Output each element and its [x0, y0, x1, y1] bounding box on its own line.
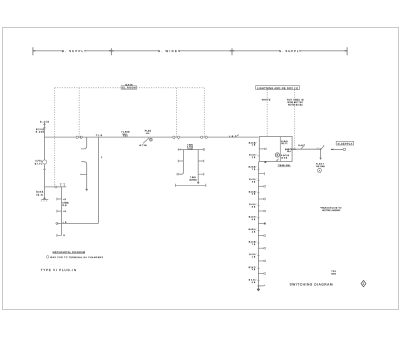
svg-text:NOTE B4 B2: NOTE B4 B2: [288, 103, 303, 106]
contact TR right upper: [198, 160, 204, 163]
svg-text:N.B4T: N.B4T: [316, 162, 325, 165]
svg-text:B7.FL: B7.FL: [35, 162, 43, 165]
node coupler contacts 2: [173, 136, 175, 138]
svg-text:NE B4B: NE B4B: [316, 165, 325, 168]
svg-text:7/B4B NBL: 7/B4B NBL: [278, 164, 292, 167]
contact K3: [57, 234, 62, 237]
contact link upper hook: [81, 137, 87, 149]
wire: dashed room boundary top: [55, 88, 295, 187]
node LIGHTNING arrester label box: [256, 86, 300, 90]
svg-text:R.B: R.B: [63, 204, 68, 207]
wire: terminal ladder vertical: [257, 162, 259, 289]
node junction with branch: [56, 222, 58, 224]
svg-text:TYPE VI PLUG-IN: TYPE VI PLUG-IN: [41, 268, 76, 272]
svg-text:N. WIRES: N. WIRES: [158, 49, 180, 53]
svg-text:BL.7L: BL.7L: [282, 142, 289, 145]
svg-text:B.24B: B.24B: [36, 131, 45, 134]
node tick: [43, 168, 46, 170]
svg-text:EL.ROOM: EL.ROOM: [122, 87, 135, 90]
wire: left feed vertical B24: [44, 124, 46, 198]
svg-text:71.B: 71.B: [96, 134, 103, 137]
relay unit box: [259, 137, 292, 162]
svg-text:B24B: B24B: [36, 191, 44, 194]
wire: contact chain vertical: [61, 187, 63, 236]
wire: horizontal branch at ground node: [45, 186, 67, 188]
svg-text:WHITE: WHITE: [262, 99, 271, 102]
wire: dashed vertical left edge: [54, 88, 56, 187]
relay TR contact group top bar: [178, 148, 204, 151]
wire: top measurement line B.SUPPLY: [33, 47, 347, 55]
contact link lower hook: [81, 162, 87, 189]
svg-text:PLB2: PLB2: [145, 130, 152, 133]
terminal T7: [258, 247, 264, 249]
svg-text:N.SEPPLY: N.SEPPLY: [338, 142, 353, 145]
svg-text:WAS CUR TO TERMINAL No CHANGER: WAS CUR TO TERMINAL No CHANGERS: [50, 256, 103, 259]
wire: box inner divider: [279, 137, 281, 162]
svg-text:N. SUPPLY: N. SUPPLY: [279, 49, 301, 53]
node drop arrow: [319, 158, 321, 160]
contact TR right lower: [198, 173, 204, 176]
contact TR left: [178, 160, 183, 163]
wire: dashed drop from lightning box right: [294, 90, 296, 149]
relay coil FSL: [43, 160, 47, 164]
svg-text:7B4: 7B4: [123, 135, 128, 138]
svg-text:MOTOR LOADING: MOTOR LOADING: [322, 209, 340, 212]
node N.SEPPLY label box: [336, 141, 354, 145]
wire: exit line to switch: [292, 148, 321, 150]
wire: dashed drop from lightning box left: [266, 90, 268, 137]
contact K2: [57, 210, 62, 213]
wire: main horizontal bus: [45, 136, 259, 138]
node ladder end diamond: [257, 288, 260, 292]
svg-text:LIGHTNING AND NE NOV (1): LIGHTNING AND NE NOV (1): [257, 87, 298, 90]
node ticks at junction: [317, 148, 320, 149]
svg-text:B.4L/7: B.4L/7: [298, 144, 305, 147]
svg-text:+B: +B: [63, 210, 67, 213]
wire: dashed vertical at coupler 1: [78, 88, 80, 137]
svg-text:B.24B: B.24B: [40, 121, 50, 124]
terminal T1: [258, 172, 265, 274]
svg-text:+B: +B: [63, 198, 67, 201]
switch blade on bus: [143, 138, 149, 144]
node terminal nub right: [331, 148, 334, 150]
node ladder cross ticks: [257, 156, 259, 281]
node terminal circle: [55, 186, 57, 188]
contact inside box: [259, 148, 264, 150]
wire: drop to N.B4T: [320, 149, 322, 158]
node coupler contacts 1: [76, 136, 207, 139]
wire: TR left leg: [179, 150, 184, 175]
svg-text:B. SUPPLY: B. SUPPLY: [62, 49, 86, 53]
node ladder labels (12 clusters, 2 lines each): [249, 141, 257, 283]
ground symbol: [43, 197, 46, 199]
svg-text:(B.7B4): (B.7B4): [190, 179, 197, 182]
contact tick with dot: [82, 173, 87, 175]
terminal T2: [258, 185, 264, 187]
terminal T5: [258, 223, 264, 225]
node ticks above branch: [61, 184, 64, 187]
wire: right return vertical: [98, 137, 100, 223]
node switch contact circle: [343, 148, 345, 150]
svg-text:B4B: B4B: [282, 156, 288, 159]
terminal T6: [258, 235, 264, 237]
svg-text:W.T/M: W.T/M: [139, 144, 146, 147]
node tap blade B.4L/7: [301, 146, 304, 149]
terminal T3: [258, 198, 263, 200]
wire: horizontal return branch: [57, 222, 99, 224]
node junction dot: [320, 148, 322, 150]
svg-text:L.B.D: L.B.D: [229, 135, 237, 138]
wire: dashed vertical at coupler 3: [203, 88, 205, 137]
node EL.ROOM label box: [121, 86, 136, 89]
node revision diamond: [361, 280, 366, 286]
svg-text:(7B2): (7B2): [187, 147, 193, 150]
contact K1: [57, 198, 62, 201]
relay coil Q: [275, 153, 279, 157]
terminal T8: [258, 260, 264, 262]
node coupler contacts 3: [201, 136, 203, 138]
svg-text:SWITCHING DIAGRAM: SWITCHING DIAGRAM: [290, 282, 333, 286]
node earth circle: [318, 168, 322, 172]
terminal T9: [258, 273, 264, 275]
svg-text:NOS: NOS: [331, 273, 336, 276]
wire: dashed vertical at coupler 2: [176, 88, 178, 137]
svg-text:4.FSL: 4.FSL: [35, 160, 43, 163]
svg-text:B: B: [63, 234, 65, 237]
svg-text:1: 1: [101, 156, 103, 159]
node arrow under box: [277, 159, 279, 161]
switch blade short with flag: [321, 147, 324, 150]
terminal T10 with riser: [258, 285, 260, 287]
terminal T4: [258, 210, 264, 212]
node blade circle: [150, 138, 153, 141]
note circled 1 with text: [46, 256, 49, 259]
node dark terminal on box bottom: [264, 161, 266, 163]
wire: TR right leg: [197, 150, 199, 183]
node arrow down: [85, 189, 88, 191]
svg-text:(B.4): (B.4): [36, 193, 43, 196]
node exit terminal nub: [293, 148, 295, 150]
node TR bottom rail: [175, 184, 205, 187]
node tick: [43, 127, 46, 129]
node arrow feed top: [43, 123, 45, 125]
